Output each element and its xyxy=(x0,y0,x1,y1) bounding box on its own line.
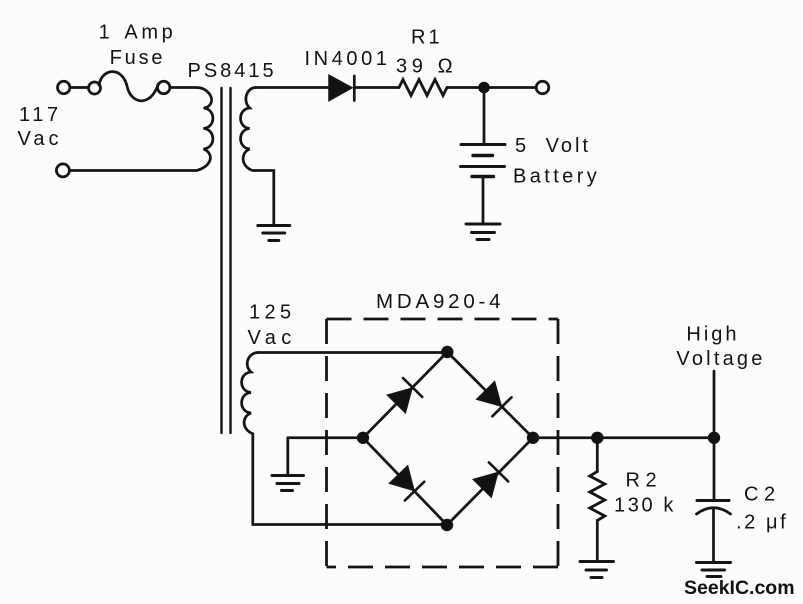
label 5 Volt Battery xyxy=(513,135,600,188)
terminal T1 (117 Vac top) xyxy=(58,81,70,93)
diode D3 (top to right arm) xyxy=(476,381,511,416)
fuse F1 1 Amp xyxy=(89,72,170,101)
svg-text:Vac: Vac xyxy=(248,327,297,349)
diode D4 (left to bottom arm) xyxy=(389,465,424,500)
wire ground branch down xyxy=(286,438,289,474)
svg-text:High: High xyxy=(686,324,739,346)
bridge edge left-bottom xyxy=(363,438,447,525)
svg-text:Fuse: Fuse xyxy=(110,47,166,69)
bridge edge left-top xyxy=(363,352,447,438)
svg-text:SeekIC.com: SeekIC.com xyxy=(684,577,795,599)
wire C2 to ground xyxy=(712,510,715,562)
ground (upper secondary tap) xyxy=(258,226,290,241)
svg-text:39 Ω: 39 Ω xyxy=(396,56,457,78)
svg-text:Vac: Vac xyxy=(18,128,63,150)
wire lower secondary top to bridge top node xyxy=(258,351,447,354)
svg-text:R1: R1 xyxy=(411,27,443,49)
terminal T3 (5V output) xyxy=(536,81,549,94)
label C2 .2 uf xyxy=(736,484,788,534)
bridge edge bottom-right xyxy=(447,438,533,525)
wire fuse to transformer primary xyxy=(170,86,197,89)
wire bridge right node to output xyxy=(533,436,714,439)
wire secondary to diode D1 xyxy=(256,86,329,89)
svg-text:.2 μf: .2 μf xyxy=(736,512,788,534)
svg-text:IN4001: IN4001 xyxy=(305,48,391,70)
terminal T2 (117 Vac bottom) xyxy=(56,164,69,177)
resistor R1 39 ohm xyxy=(399,80,447,96)
ground (bridge left node) xyxy=(272,476,304,491)
wire D1 to R1 xyxy=(355,86,399,89)
transformer secondary winding (5V, upper) xyxy=(241,88,274,171)
label R1 39 ohm xyxy=(396,27,457,78)
svg-text:5 Volt: 5 Volt xyxy=(515,135,591,157)
bridge node left xyxy=(357,432,369,444)
bridge node bottom xyxy=(441,519,453,531)
diode D1 IN4001 xyxy=(329,75,354,100)
wire T2 to primary bottom xyxy=(70,169,197,172)
diode D2 (left to top arm) xyxy=(387,378,422,413)
transformer core line right xyxy=(229,88,231,433)
bridge node top xyxy=(441,346,453,358)
transformer core line left xyxy=(220,88,222,433)
svg-text:1 Amp: 1 Amp xyxy=(99,22,177,44)
svg-text:Voltage: Voltage xyxy=(676,348,765,370)
svg-text:125: 125 xyxy=(249,302,296,324)
dashed module box MDA920-4 xyxy=(327,319,559,567)
junction node (5V output) xyxy=(478,82,490,94)
svg-text:PS8415: PS8415 xyxy=(188,60,277,82)
svg-text:C2: C2 xyxy=(744,484,781,506)
ground (C2) xyxy=(697,563,731,577)
svg-text:MDA920-4: MDA920-4 xyxy=(376,290,504,313)
wire lower secondary bottom to bridge bottom node xyxy=(253,523,447,526)
wire secondary tap down to ground xyxy=(272,171,275,225)
label High Voltage xyxy=(676,324,765,371)
wire battery to ground xyxy=(482,177,485,224)
wire High Voltage lead xyxy=(713,371,716,438)
wire lower secondary bottom down xyxy=(251,434,254,525)
diode D5 (bottom to right arm) xyxy=(473,462,508,497)
bridge edge top-right xyxy=(447,352,533,438)
label 117 Vac xyxy=(18,104,63,150)
wire R1 to output terminal xyxy=(447,86,536,89)
wire junction to battery xyxy=(483,88,486,145)
ground (R2) xyxy=(580,562,614,578)
transformer T PS8415 primary winding xyxy=(197,88,213,171)
wire junction to R2 xyxy=(596,438,599,472)
wire junction to C2 xyxy=(713,438,716,500)
transformer secondary winding (125V, lower) xyxy=(242,353,258,434)
svg-text:130 k: 130 k xyxy=(614,495,676,517)
label 1 Amp Fuse xyxy=(99,22,177,70)
svg-text:Battery: Battery xyxy=(513,166,600,188)
junction node C2 / High Voltage xyxy=(708,432,720,444)
svg-text:117: 117 xyxy=(19,104,62,126)
svg-text:R2: R2 xyxy=(626,470,663,492)
wire bridge left node to ground branch xyxy=(288,436,363,439)
bridge node right xyxy=(527,432,539,444)
label R2 130 k xyxy=(614,470,676,517)
resistor R2 130 k xyxy=(590,472,605,521)
capacitor C2 .2 uf xyxy=(697,501,731,515)
label 125 Vac xyxy=(248,302,297,350)
wire T1 to fuse xyxy=(70,86,89,89)
ground (battery) xyxy=(466,224,500,240)
wire R2 to ground xyxy=(596,521,599,561)
battery BT1 5 Volt xyxy=(461,145,506,177)
junction node R2 xyxy=(591,432,603,444)
